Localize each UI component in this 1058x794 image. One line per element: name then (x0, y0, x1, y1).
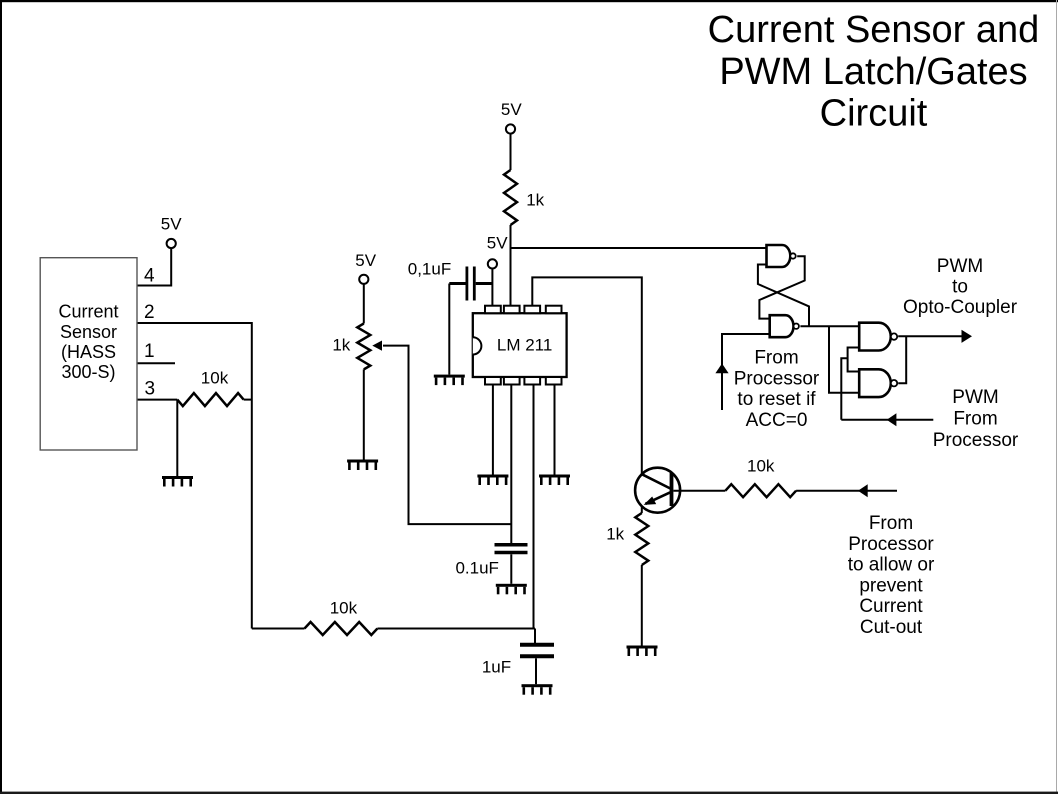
svg-text:to reset if: to reset if (737, 389, 816, 410)
svg-text:PWM: PWM (937, 256, 983, 277)
svg-text:4: 4 (144, 266, 155, 287)
svg-text:Current Sensor and: Current Sensor and (708, 9, 1040, 51)
svg-text:Sensor: Sensor (60, 322, 117, 342)
svg-text:ACC=0: ACC=0 (746, 410, 808, 431)
svg-text:1uF: 1uF (482, 658, 511, 677)
svg-text:1k: 1k (526, 191, 544, 210)
svg-text:to: to (952, 277, 968, 298)
svg-text:Opto-Coupler: Opto-Coupler (903, 297, 1018, 318)
svg-text:5V: 5V (161, 214, 182, 233)
svg-text:0,1uF: 0,1uF (408, 259, 451, 278)
svg-text:1k: 1k (332, 336, 350, 355)
svg-text:Processor: Processor (848, 534, 934, 555)
svg-text:From: From (953, 409, 997, 430)
svg-text:2: 2 (144, 302, 155, 323)
svg-text:10k: 10k (747, 457, 775, 476)
svg-text:(HASS: (HASS (61, 342, 116, 362)
svg-text:5V: 5V (501, 100, 522, 119)
svg-text:Circuit: Circuit (820, 92, 928, 134)
svg-text:to allow or: to allow or (848, 555, 935, 576)
svg-text:5V: 5V (487, 234, 508, 253)
svg-text:0.1uF: 0.1uF (455, 558, 498, 577)
svg-text:5V: 5V (355, 251, 376, 270)
svg-text:From: From (869, 513, 913, 534)
svg-text:1k: 1k (606, 525, 624, 544)
svg-text:PWM Latch/Gates: PWM Latch/Gates (719, 51, 1027, 93)
svg-text:Current: Current (58, 302, 118, 322)
svg-text:Processor: Processor (734, 368, 820, 389)
svg-text:From: From (754, 348, 798, 369)
svg-text:10k: 10k (330, 599, 358, 618)
svg-text:300-S): 300-S) (61, 362, 115, 382)
svg-text:LM 211: LM 211 (497, 335, 552, 354)
svg-text:3: 3 (145, 379, 156, 400)
svg-text:Cut-out: Cut-out (860, 617, 923, 638)
svg-text:1: 1 (144, 341, 155, 362)
svg-text:10k: 10k (201, 369, 229, 388)
svg-text:Current: Current (859, 596, 923, 617)
svg-text:prevent: prevent (859, 575, 923, 596)
svg-text:Processor: Processor (933, 430, 1019, 451)
svg-text:PWM: PWM (952, 387, 998, 408)
